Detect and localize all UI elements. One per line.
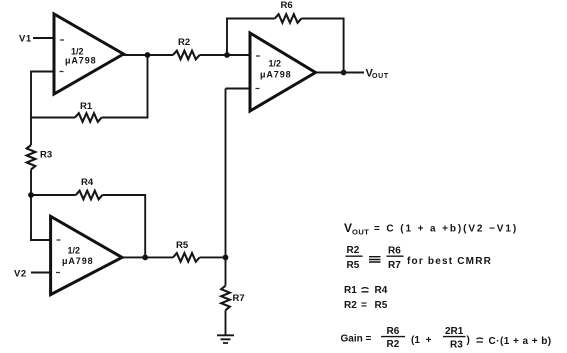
wire R6 right lead [301, 18, 343, 20]
node junction R2/R6 [224, 52, 230, 58]
node junction R3/R4 [28, 192, 34, 198]
svg-text:(1 +: (1 + [411, 335, 432, 346]
svg-text:=: = [366, 334, 372, 345]
svg-text:R2: R2 [344, 300, 357, 311]
wire U2 output to Vout [315, 72, 364, 74]
svg-text:R6: R6 [387, 326, 400, 337]
svg-text:for best CMRR: for best CMRR [407, 256, 492, 267]
svg-text:R6: R6 [281, 0, 293, 11]
svg-text:OUT: OUT [372, 73, 389, 80]
resistor R5 [173, 240, 200, 262]
op-amp U2 [250, 33, 316, 111]
wire output to R1 vertical [147, 54, 149, 119]
resistor R3 [27, 145, 52, 170]
svg-text:V2: V2 [14, 269, 27, 280]
svg-text:R4: R4 [375, 285, 388, 296]
resistor R6 [275, 0, 302, 23]
svg-text:μA798: μA798 [260, 70, 292, 80]
note: gain equation [341, 326, 552, 351]
wire V2 input to U3 [31, 272, 51, 274]
node junction R6/Vout [341, 70, 347, 76]
op-amp U3 [51, 216, 122, 294]
svg-text:R7: R7 [233, 293, 245, 304]
svg-text:R2: R2 [347, 245, 360, 256]
wire R4 right lead [102, 194, 145, 196]
svg-text:V: V [344, 221, 352, 235]
svg-text:μA798: μA798 [62, 256, 94, 266]
wire R4 left lead [31, 194, 76, 196]
wire R4 down to U3 output [144, 194, 146, 258]
svg-text:=: = [361, 300, 367, 311]
wire U3 output [121, 256, 173, 258]
resistor R2 [173, 37, 200, 59]
wire R7 to ground [225, 310, 227, 335]
ground [217, 335, 234, 343]
node junction R4/U3out [142, 255, 148, 261]
svg-text:Gain: Gain [341, 334, 363, 345]
svg-text:R3: R3 [40, 150, 52, 161]
wire U1 inverting input stub [31, 71, 54, 73]
svg-text:R2: R2 [178, 37, 190, 48]
svg-text:1/2: 1/2 [68, 246, 81, 256]
svg-text:R5: R5 [347, 260, 360, 271]
note: R2/R5 = R6/R7 condition [346, 245, 493, 271]
wire R7 top lead [225, 257, 227, 285]
wire V1 input to U1 [33, 37, 54, 39]
wire U1 feedback vertical [30, 71, 32, 119]
note: Vout equation [344, 221, 518, 237]
node Vout label [366, 68, 389, 81]
svg-text:μA798: μA798 [65, 56, 97, 66]
resistor R7 [221, 286, 244, 311]
node junction U1out/R1 [145, 52, 151, 58]
svg-text:OUT: OUT [352, 228, 369, 237]
wire U2 input down to R5/R7 node [225, 89, 227, 259]
svg-text:1/2: 1/2 [269, 59, 282, 69]
svg-text:R4: R4 [81, 177, 94, 188]
wire R1 left lead [31, 117, 75, 119]
svg-text:R5: R5 [176, 240, 189, 251]
svg-text:C·(1 + a + b): C·(1 + a + b) [489, 336, 552, 347]
svg-text:): ) [467, 335, 470, 346]
wire R2 to U2 input [200, 54, 250, 56]
svg-text:R2: R2 [387, 339, 400, 350]
svg-text:R5: R5 [375, 300, 388, 311]
resistor R1 [75, 101, 102, 122]
wire U2 inverting input stub [226, 88, 251, 90]
wire R6 right vertical to output [343, 18, 345, 73]
resistor R4 [76, 177, 103, 199]
svg-text:V1: V1 [19, 34, 32, 45]
note: R2 = R5 [344, 300, 388, 311]
svg-text:R6: R6 [388, 246, 401, 257]
wire R5 right lead [200, 256, 226, 258]
svg-text:2R1: 2R1 [445, 326, 464, 337]
note: R1 = R4 [344, 285, 388, 296]
svg-text:R3: R3 [450, 340, 463, 351]
svg-text:R1: R1 [344, 285, 357, 296]
op-amp U1 [54, 14, 124, 94]
svg-text:= C (1 + a +b)(V2 −V1): = C (1 + a +b)(V2 −V1) [374, 224, 518, 235]
wire R6 left vertical [226, 19, 228, 56]
svg-text:R7: R7 [388, 260, 401, 271]
node junction R5/R7/U2 [223, 255, 229, 261]
wire R6 left lead [226, 18, 275, 20]
wire U1 output [123, 54, 173, 56]
svg-text:R1: R1 [80, 101, 93, 112]
wire R3 to U3 input [30, 170, 51, 242]
wire left vertical R1 node to R3 [30, 118, 32, 146]
wire R1 right lead [102, 117, 148, 119]
